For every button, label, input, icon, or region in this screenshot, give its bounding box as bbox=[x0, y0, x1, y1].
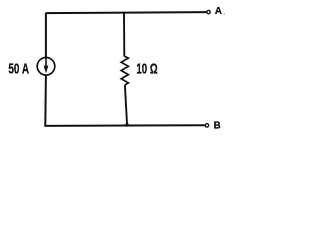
junction dot at bottom bbox=[125, 123, 129, 127]
wire left upper bbox=[45, 13, 47, 58]
resistor R zigzag bbox=[121, 56, 128, 85]
terminal A bbox=[207, 10, 210, 13]
resistor bottom stub bbox=[125, 85, 127, 125]
resistor R branch: top stub bbox=[123, 13, 125, 57]
svg-text:50 A: 50 A bbox=[8, 61, 29, 78]
wire left lower bbox=[44, 75, 47, 126]
terminal B bbox=[205, 124, 208, 127]
speck bbox=[224, 13, 226, 15]
wire top bbox=[45, 12, 206, 13]
svg-text:A: A bbox=[215, 6, 222, 17]
arrow of current source (pointing down) bbox=[44, 58, 49, 73]
svg-text:10 Ω: 10 Ω bbox=[136, 60, 157, 77]
current source I1 bbox=[37, 58, 55, 76]
wire bottom bbox=[44, 124, 205, 127]
svg-text:B: B bbox=[214, 121, 221, 132]
